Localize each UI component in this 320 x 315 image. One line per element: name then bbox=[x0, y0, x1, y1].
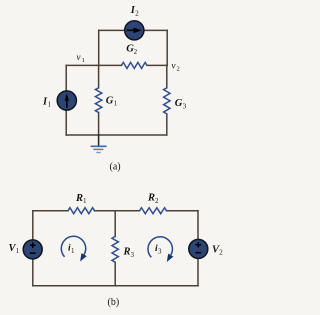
conductance G1 (zigzag) bbox=[95, 88, 101, 113]
wire: right branch lower (G3 to bottom wire) bbox=[166, 114, 168, 135]
conductance G3 (zigzag) bbox=[164, 88, 170, 114]
wire: left branch upper (to I1 source) bbox=[65, 65, 67, 91]
wire: middle branch lower (G1 to bottom wire) bbox=[98, 113, 100, 136]
wire: left side lower (V1 to bottom corner) bbox=[32, 259, 34, 286]
wire: left branch lower (I1 to bottom wire) bbox=[65, 110, 67, 135]
wire: ground stem bbox=[98, 135, 100, 145]
svg-text:1: 1 bbox=[114, 100, 118, 108]
svg-text:R: R bbox=[147, 193, 155, 204]
svg-text:3: 3 bbox=[158, 248, 162, 256]
mesh current arrow i1 (clockwise arc) bbox=[61, 236, 86, 261]
wire: node row middle segment (v1 to G2) bbox=[99, 64, 122, 66]
voltage source V1 (circle with plus minus) bbox=[23, 240, 42, 259]
wire: middle branch upper (v1 down to G1) bbox=[98, 65, 100, 87]
resistor R3 (zigzag) bbox=[112, 236, 118, 262]
ground bbox=[91, 146, 107, 152]
svg-text:G: G bbox=[175, 98, 183, 109]
wire: middle branch upper (top wire to R3) bbox=[114, 211, 116, 237]
svg-text:R: R bbox=[123, 247, 131, 258]
current source I1 (circle with up arrow) bbox=[57, 91, 76, 110]
svg-text:2: 2 bbox=[135, 10, 139, 18]
wire: top wire right segment (R2 to right corner) bbox=[167, 210, 199, 212]
mesh current arrow i3 (clockwise arc) bbox=[148, 237, 173, 262]
wire: top wire right segment (I2 to right corner) bbox=[144, 29, 168, 31]
wire: right side lower (V2 to bottom corner) bbox=[197, 259, 199, 286]
svg-text:(a): (a) bbox=[110, 161, 121, 172]
voltage source V2 (circle with plus minus) bbox=[189, 239, 208, 258]
wire: left side upper (corner down to V1) bbox=[32, 211, 34, 240]
resistor R2 (zigzag) bbox=[140, 208, 167, 214]
svg-text:1: 1 bbox=[16, 247, 20, 255]
wire: node row right segment (G2 to v2) bbox=[147, 64, 167, 66]
wire: bottom wire of circuit (b) bbox=[33, 285, 198, 287]
conductance G2 (zigzag) bbox=[122, 62, 148, 68]
svg-text:2: 2 bbox=[177, 65, 180, 72]
svg-text:v: v bbox=[77, 52, 81, 62]
svg-text:(b): (b) bbox=[108, 297, 120, 308]
svg-text:2: 2 bbox=[155, 197, 159, 205]
svg-text:1: 1 bbox=[48, 101, 52, 109]
svg-text:G: G bbox=[106, 95, 114, 106]
svg-text:3: 3 bbox=[183, 102, 187, 110]
svg-text:R: R bbox=[75, 193, 83, 204]
wire: top loop right vertical (top wire down to v2) bbox=[166, 30, 168, 65]
wire: right branch upper (v2 down to G3) bbox=[166, 65, 168, 87]
resistor R1 (zigzag) bbox=[68, 208, 95, 214]
svg-text:1: 1 bbox=[82, 57, 85, 64]
wire: top loop left vertical (v1 up to top wire) bbox=[98, 30, 100, 65]
wire: top wire left segment (corner to R1) bbox=[33, 210, 68, 212]
wire: node row left segment (left branch to v1) bbox=[66, 64, 99, 66]
svg-text:1: 1 bbox=[71, 247, 75, 255]
svg-text:2: 2 bbox=[219, 249, 223, 257]
wire: middle branch lower (R3 to bottom wire) bbox=[114, 262, 116, 286]
wire: top wire mid segment (R1 to middle junction to R2) bbox=[95, 210, 140, 212]
wire: top wire left segment (corner to I2) bbox=[99, 29, 125, 31]
wire: right side upper (corner down to V2) bbox=[197, 211, 199, 240]
wire: bottom wire of circuit (a) bbox=[66, 134, 167, 136]
current source I2 (circle with right arrow) bbox=[125, 21, 144, 40]
svg-text:3: 3 bbox=[131, 251, 135, 259]
svg-text:1: 1 bbox=[83, 197, 87, 205]
svg-text:2: 2 bbox=[134, 48, 138, 56]
svg-text:v: v bbox=[172, 60, 176, 70]
